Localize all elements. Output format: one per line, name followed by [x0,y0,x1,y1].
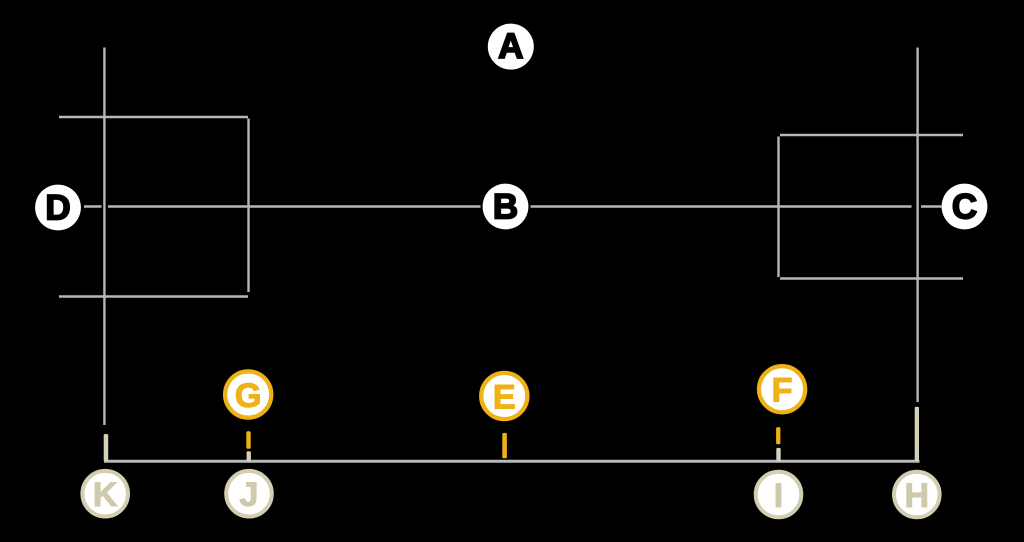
wire left upright [103,48,105,426]
node E [481,373,527,419]
svg-text:H: H [905,477,930,515]
svg-text:I: I [774,477,783,515]
wire bottom rail [104,460,920,463]
svg-text:K: K [93,476,118,514]
svg-text:A: A [498,27,523,66]
node A [488,24,534,70]
wire center bar segment upright to B [108,205,481,208]
svg-text:D: D [45,189,70,228]
node D [35,185,81,231]
node K [82,471,128,517]
node I [756,472,802,518]
svg-text:B: B [493,188,518,227]
wire center bar segment right upright to C [921,205,942,208]
wire right sleeve left side [777,137,779,278]
tick gold below node E [502,433,507,458]
svg-text:E: E [493,379,516,417]
node G [225,371,271,417]
node F [759,366,805,412]
wire center bar segment D to upright [84,205,102,208]
tick beige above node H [915,407,919,461]
tick beige above node K [104,434,109,462]
wire right sleeve top [780,134,963,136]
wire left sleeve top [59,116,248,118]
tick beige above node I [776,448,780,462]
node C [942,184,988,230]
tick gold below node G [246,431,250,449]
tick beige above node J [247,451,251,461]
node J [226,471,272,517]
svg-text:G: G [235,377,262,415]
wire right sleeve bottom [780,277,963,279]
tick gold below node F [776,427,780,444]
svg-text:F: F [772,372,793,410]
wire right upright [916,48,918,403]
svg-text:C: C [952,188,977,227]
svg-text:J: J [240,476,259,514]
wire left sleeve right side [247,119,249,293]
wire center bar segment B to right [531,205,912,208]
node H [894,472,940,518]
node B [483,184,529,230]
wire left sleeve bottom [59,295,248,297]
